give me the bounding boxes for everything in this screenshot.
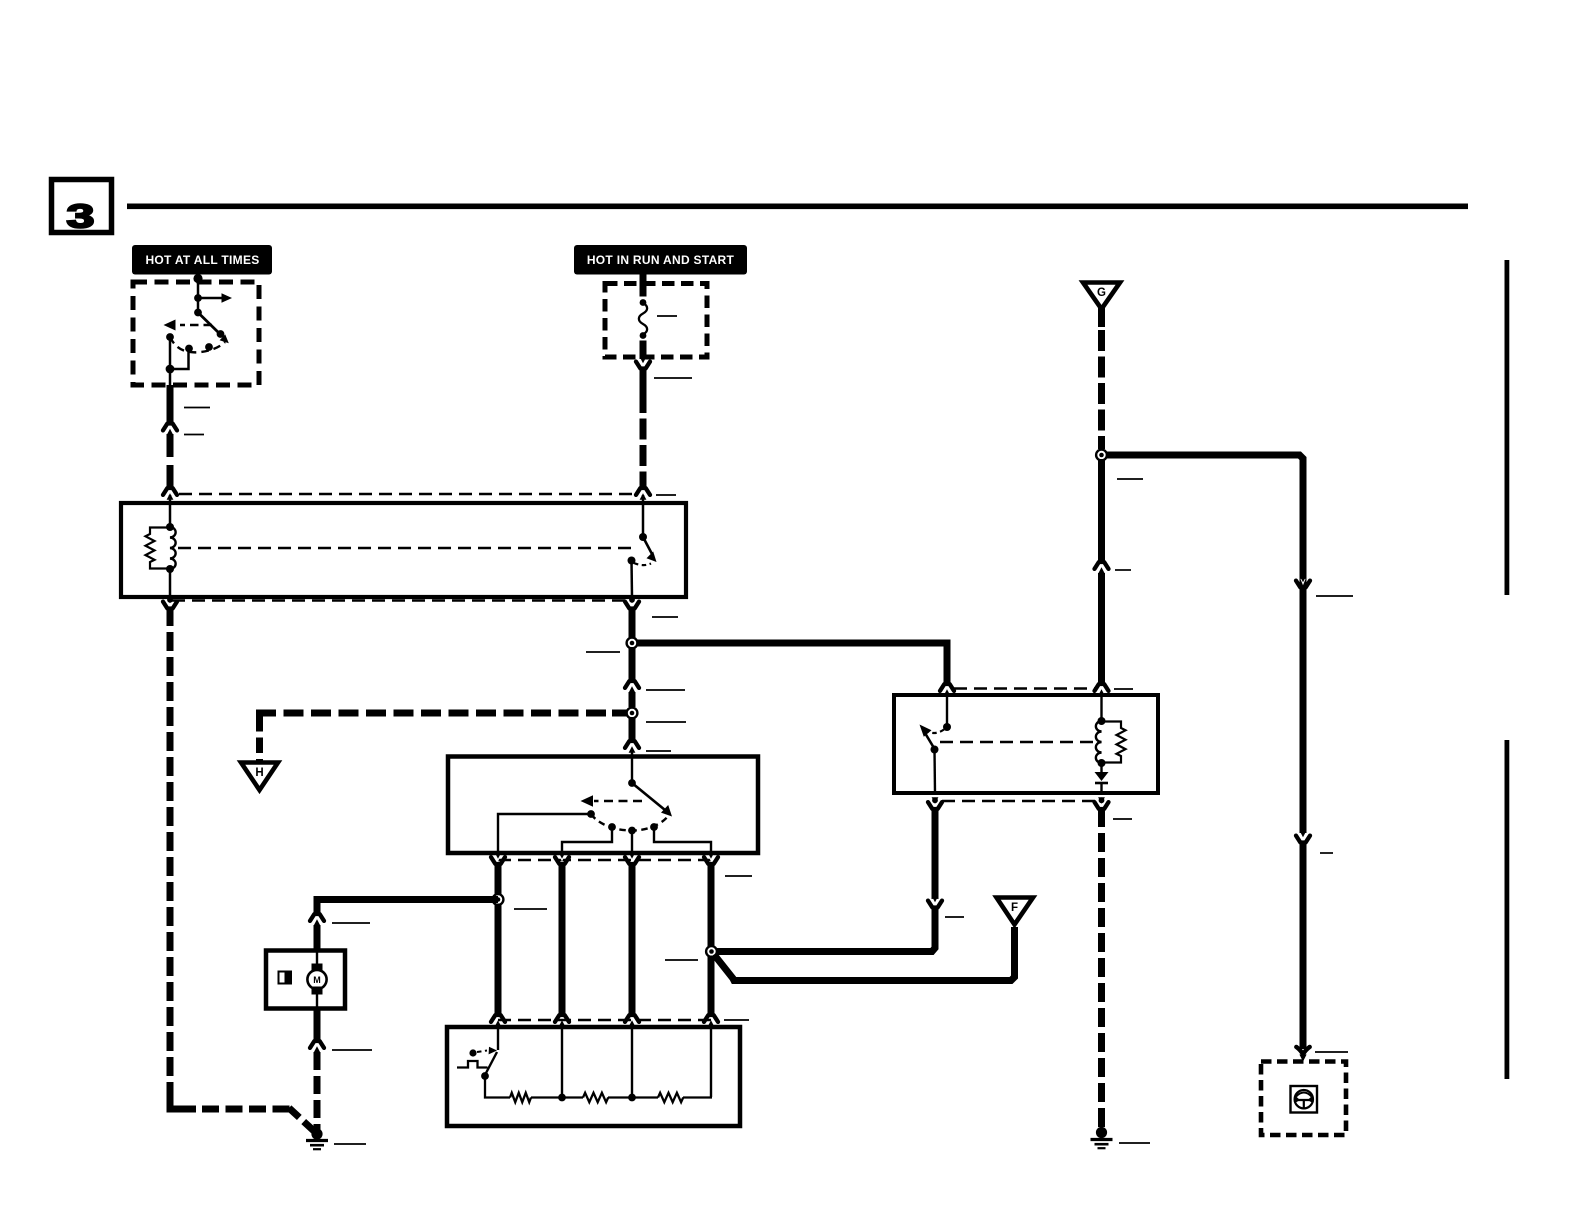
relay K1 mechanical link dashed — [178, 547, 636, 550]
wire label junction F — [665, 959, 698, 961]
wire tap2 to R2 — [562, 1096, 583, 1098]
connector label — [656, 494, 676, 496]
wire junction to motor horizontal — [317, 900, 498, 915]
svg-text:3: 3 — [67, 198, 95, 236]
relay K2 parallel resistor — [1102, 722, 1126, 763]
wire fuse to relay solid part — [640, 367, 647, 392]
node fuse bottom — [640, 332, 647, 339]
diode D1 — [1095, 772, 1109, 783]
relay K2 coil lead — [1100, 763, 1102, 772]
node coil top — [166, 523, 174, 531]
relay K2 switch arm — [920, 725, 935, 749]
wire label bus1 — [514, 908, 547, 910]
fan switch position arc dashed — [591, 814, 669, 831]
motor M1 — [307, 970, 326, 989]
blower motor housing — [266, 951, 345, 1009]
resistor R3 — [658, 1093, 683, 1102]
relay K1 switch feed wire — [642, 495, 645, 537]
wire label — [1117, 478, 1143, 480]
thermal limiter arm — [486, 1052, 498, 1074]
wire R3 to feed4 — [683, 1096, 712, 1098]
triangle connector G — [1083, 283, 1120, 310]
ignition output drop — [169, 337, 172, 387]
wire label — [654, 377, 692, 379]
wire K2 coil ground dashed — [1098, 808, 1105, 1128]
node arc mid-left — [185, 345, 193, 353]
fuse value label — [657, 315, 677, 317]
wire segment — [167, 465, 174, 488]
ignition switch common stem — [197, 278, 200, 313]
triangle connector F — [997, 898, 1034, 925]
motor brush bottom — [312, 987, 323, 995]
relay K1 switch throw dashed arc — [634, 563, 651, 565]
node ignition feed — [193, 274, 202, 283]
wire R2 to tap3 — [608, 1096, 632, 1098]
power label HOT IN RUN AND START — [574, 245, 747, 275]
section marker bar upper right — [1505, 260, 1510, 595]
relay K2 coil — [1096, 721, 1102, 763]
motor internal wire — [316, 952, 318, 1008]
inline connector at relay K2 feed — [940, 683, 954, 696]
svg-text:G: G — [1097, 287, 1106, 299]
node K2 coil ground — [1099, 797, 1105, 803]
wire label left of junction A — [586, 651, 620, 653]
relay K2 switch throw dashed arc — [926, 730, 945, 734]
relay K2 coil feed wire — [1100, 692, 1102, 721]
node coil bottom — [166, 565, 174, 573]
node tap 3 — [628, 1094, 636, 1102]
wire bus4 upper — [708, 863, 715, 947]
node position 4 — [650, 823, 658, 831]
relay K2 switch feed wire — [946, 692, 948, 727]
ground label — [334, 1143, 366, 1145]
wire bus2 — [559, 863, 566, 1014]
relay K1 housing — [121, 503, 686, 597]
node switch output — [628, 557, 636, 565]
wire motor to ground upper — [314, 1008, 321, 1041]
wire label — [646, 721, 686, 723]
wire left ground diagonal dashed — [289, 1108, 314, 1131]
wire segment — [167, 434, 174, 457]
wire bus3 — [629, 863, 636, 1014]
ignition LOCK dashed arrow — [164, 320, 213, 331]
thermal element step — [457, 1061, 488, 1068]
inline connector at A/C box — [1296, 1047, 1309, 1062]
inline connector right bus — [1296, 831, 1310, 844]
wire junction A down — [629, 647, 636, 681]
wire ignition to relay (upper) — [167, 385, 174, 424]
node K2 switch output — [931, 746, 939, 754]
ground G1 — [306, 1128, 328, 1149]
motor indicator glyph — [279, 972, 292, 984]
inline connector right bus upper — [1296, 576, 1310, 589]
fuse output stub — [640, 341, 647, 360]
inline connector motor ground — [310, 1040, 324, 1053]
svg-text:M: M — [313, 975, 321, 985]
node position 3 — [628, 827, 636, 835]
node ignition pivot — [194, 309, 202, 317]
wire label — [1316, 595, 1353, 597]
fan switch housing — [448, 757, 758, 854]
node junction A — [625, 636, 638, 649]
wire R1 to tap2 — [531, 1096, 562, 1098]
wire label — [332, 1049, 372, 1051]
wire K2 out down — [932, 808, 939, 899]
header horizontal rule — [127, 204, 1468, 210]
relay K1 bottom connector dashed line — [172, 599, 630, 602]
inline connector — [625, 740, 639, 753]
fan switch bottom connector dashed line — [498, 859, 711, 862]
inline connector — [1095, 561, 1109, 574]
wire to relay K2 coil — [1098, 573, 1105, 685]
inline connector below fuse — [636, 357, 650, 370]
inline connector motor top — [310, 913, 324, 926]
node junction motor feed — [491, 893, 504, 906]
node arc left — [166, 333, 174, 341]
inline connector at relay top right — [636, 487, 650, 500]
svg-text:F: F — [1011, 902, 1018, 914]
node position 1 — [587, 810, 595, 818]
node position 2 — [608, 823, 616, 831]
wire bus1 upper — [495, 863, 502, 895]
wire G dashed — [1098, 330, 1105, 449]
svg-text:HOT IN RUN AND START: HOT IN RUN AND START — [587, 253, 735, 267]
relay K2 switch output wire — [933, 750, 936, 794]
inline connector bus1 bottom — [491, 1014, 505, 1027]
node tap 2 — [558, 1094, 566, 1102]
ignition switch moving arm — [198, 313, 229, 344]
inline connector — [928, 896, 942, 909]
connector label — [725, 875, 752, 877]
relay K1 coil feed wire — [169, 495, 172, 527]
relay K2 housing — [894, 695, 1158, 793]
fan switch common wire — [631, 757, 633, 783]
resistor pack top connector dashed line — [498, 1019, 711, 1022]
inline connector below relay left — [163, 597, 177, 610]
relay K2 mechanical link dashed — [940, 741, 1094, 744]
ignition detent arc dashed — [170, 337, 225, 352]
wire junction B down — [629, 717, 636, 741]
node fuse top — [640, 299, 647, 306]
fan switch moving arm — [632, 783, 672, 817]
relay K2 bottom connector dashed line — [942, 800, 1096, 803]
node thermal output — [481, 1072, 489, 1080]
ground G2 — [1091, 1127, 1113, 1148]
wire left ground run dashed — [167, 607, 174, 1101]
inline connector bus2 bottom — [555, 1014, 569, 1027]
blower resistor pack housing — [447, 1027, 740, 1126]
diode lead to housing — [1100, 783, 1102, 793]
resistor feed wire 3 — [631, 1025, 633, 1097]
wire bus1 lower — [495, 904, 502, 1015]
ground label — [1119, 1142, 1150, 1144]
ignition switch dashed housing — [133, 282, 259, 385]
connector label — [1114, 688, 1133, 690]
inline connector bus3 bottom — [625, 1014, 639, 1027]
node on arm — [217, 330, 225, 338]
node ignition ACC contact — [194, 294, 202, 302]
wire into motor — [314, 925, 321, 952]
node junction F feed — [705, 945, 718, 958]
wire position 2 out — [562, 827, 612, 853]
wire H-branch dashed horizontal — [260, 713, 629, 717]
thermal limiter dashed throw — [477, 1047, 497, 1055]
wire label — [184, 434, 204, 436]
node fan switch pivot — [628, 779, 636, 787]
node K2 out left — [932, 797, 938, 803]
page index box "3" — [52, 180, 112, 236]
wire position 1 out — [498, 814, 591, 853]
wire stub into junction B — [612, 710, 626, 717]
section marker bar lower right — [1505, 740, 1510, 1079]
relay K1 top connector dashed line — [179, 493, 635, 496]
inline connector pos3 — [625, 852, 639, 865]
A/C control icon — [1291, 1086, 1318, 1113]
wire label — [646, 750, 671, 752]
inline connector pos4 — [704, 852, 718, 865]
inline connector K2 out left — [928, 797, 942, 810]
wire label — [1315, 1051, 1348, 1053]
wire K2 out to junction F feed — [716, 907, 935, 952]
node ignition output — [166, 365, 175, 374]
wire label — [1320, 852, 1333, 854]
node K2 coil bottom — [1098, 759, 1106, 767]
wire tap3 to R3 — [632, 1096, 658, 1098]
inline connector — [625, 680, 639, 693]
resistor feed wire 1 — [497, 1025, 499, 1050]
wire H-branch dashed vertical — [256, 716, 263, 766]
thermal limiter node — [469, 1049, 476, 1056]
wire stub to junction B — [629, 692, 636, 707]
wire junction A to relay K2 horizontal — [632, 643, 947, 684]
node below relay left — [167, 597, 173, 603]
wire label — [945, 916, 964, 918]
node arc mid-right — [205, 343, 213, 351]
node junction B — [625, 706, 638, 719]
relay K1 coil ground wire — [169, 569, 172, 597]
fuse element — [639, 303, 647, 335]
fan switch OFF dashed arrow — [581, 795, 643, 807]
motor brush top — [312, 964, 323, 972]
resistor feed wire 2 — [561, 1025, 563, 1097]
wire label-box to ignition switch — [197, 274, 200, 284]
inline connector bus4 bottom — [704, 1014, 718, 1027]
A/C control head dashed housing — [1261, 1062, 1346, 1136]
wire position 4 out — [654, 827, 711, 853]
power label HOT AT ALL TIMES — [132, 245, 272, 275]
fuse dashed housing — [605, 284, 707, 358]
connector label — [1113, 818, 1132, 820]
wire label — [184, 407, 210, 409]
inline connector below relay right — [625, 597, 639, 610]
wire relay to junction A — [629, 607, 636, 638]
wire G junction down — [1098, 459, 1105, 562]
ignition L-link — [170, 349, 189, 370]
node switch pivot — [639, 533, 647, 541]
svg-text:H: H — [255, 767, 263, 779]
wire label-box to fuse — [640, 274, 647, 297]
node below relay right — [629, 597, 635, 603]
wire label — [332, 922, 370, 924]
wire junction to F triangle — [714, 927, 1015, 981]
svg-text:HOT AT ALL TIMES: HOT AT ALL TIMES — [145, 253, 259, 267]
inline connector at relay top — [163, 487, 177, 500]
node junction G — [1095, 448, 1108, 461]
wire fuse to relay dashed part — [640, 392, 647, 488]
relay K1 switch arm — [643, 537, 657, 562]
inline connector pos2 — [555, 852, 569, 865]
relay K1 parallel resistor — [146, 528, 171, 569]
wire label — [646, 689, 685, 691]
wire position 3 out — [631, 830, 633, 853]
resistor R2 — [583, 1093, 608, 1102]
wire G stub — [1098, 307, 1105, 327]
inline connector K2 coil ground — [1095, 797, 1109, 810]
inline connector pos1 — [491, 852, 505, 865]
wire bus4 lower — [708, 956, 715, 1015]
connector label — [724, 1019, 749, 1021]
relay K2 top connector dashed line — [954, 687, 1096, 690]
wire right bus lower — [1300, 842, 1307, 1050]
wire thermal to resistor chain — [485, 1076, 510, 1098]
ignition ACC arrow — [198, 293, 232, 303]
relay K1 coil — [170, 527, 176, 569]
wire into fan switch — [631, 751, 634, 757]
resistor feed wire 4 — [710, 1025, 712, 1097]
inline connector — [163, 422, 177, 435]
node K2 switch pivot — [943, 723, 951, 731]
wire label — [652, 616, 678, 618]
inline connector at K2 top — [1095, 683, 1109, 696]
resistor R1 — [510, 1093, 531, 1102]
wire motor ground dashed — [314, 1052, 321, 1131]
node K2 coil top — [1098, 717, 1106, 725]
relay K1 switch output wire — [630, 561, 633, 598]
triangle connector H — [241, 763, 278, 791]
wire junction G to right bus — [1102, 455, 1304, 833]
wire label — [1115, 569, 1131, 571]
